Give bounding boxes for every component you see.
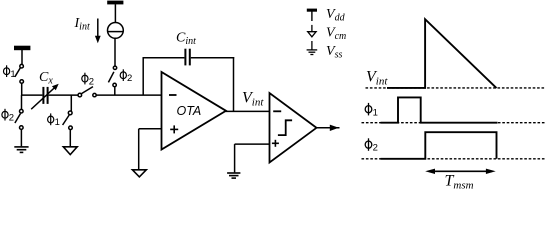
wire: comparator non-inverting input to ground xyxy=(235,144,270,172)
label phi2 (left ground switch) xyxy=(2,109,14,124)
wire: switch S4 to OTA inverting input xyxy=(96,94,161,96)
arrow Iint (current direction) xyxy=(95,19,101,44)
wire: node A down to switch S2 xyxy=(21,95,23,109)
svg-text:2: 2 xyxy=(9,113,14,124)
waveform phi1: dashed baseline xyxy=(362,122,546,124)
waveform Vint: dashed baseline xyxy=(366,87,546,89)
svg-text:Vss: Vss xyxy=(326,44,342,61)
svg-text:Vdd: Vdd xyxy=(326,7,346,24)
switch S3 phi1 (to Vcm ground) xyxy=(63,111,73,130)
waveform Vint: solid trace (ramp) xyxy=(387,19,497,88)
wire: comparator output with arrow xyxy=(317,125,340,131)
svg-text:Iint: Iint xyxy=(74,16,90,33)
svg-text:Cint: Cint xyxy=(176,31,196,48)
wire: feedback riser left (node B to Cint) xyxy=(142,58,144,95)
svg-text:1: 1 xyxy=(10,69,15,80)
legend Vcm symbol xyxy=(308,25,316,37)
wire: node C up to switch S5 xyxy=(114,87,116,96)
label phi2 (waveform) xyxy=(365,138,378,153)
svg-text:Vcm: Vcm xyxy=(326,26,346,43)
capacitor Cint xyxy=(185,49,189,66)
switch S5 phi2 (to current source) xyxy=(108,66,116,87)
label phi1 (waveform) xyxy=(365,103,378,118)
svg-text:2: 2 xyxy=(127,73,132,84)
ground Vcm (open triangle, OTA + input) xyxy=(132,170,146,177)
wire: Cx to node B xyxy=(49,94,78,96)
wire: feedback top left segment xyxy=(143,57,185,59)
ground Vss (comparator + input) xyxy=(227,173,240,178)
svg-text:2: 2 xyxy=(373,143,378,154)
comparator U2 xyxy=(270,93,317,163)
switch S2 phi2 (to ground, left) xyxy=(15,109,23,129)
svg-text:Cx: Cx xyxy=(39,70,53,87)
Vdd symbol (top-left rail) xyxy=(14,46,30,64)
ground Vcm (open triangle, under S3) xyxy=(63,147,77,155)
svg-text:2: 2 xyxy=(89,76,94,87)
wire: OTA output to comparator (node Vint) xyxy=(226,110,270,112)
waveform phi2: solid trace (pulse) xyxy=(381,132,497,159)
svg-text:Vint: Vint xyxy=(242,90,264,109)
current source Iint xyxy=(108,23,124,39)
label phi2 (current-source switch) xyxy=(120,69,132,84)
dimension arrow Tmsm xyxy=(425,169,496,174)
label phi1 (middle switch) xyxy=(48,113,60,127)
switch S4 phi2 (series, main line) xyxy=(78,87,96,97)
wire: node A to capacitor Cx xyxy=(21,94,42,96)
svg-text:1: 1 xyxy=(373,107,378,118)
capacitor Cx (variable) xyxy=(31,84,59,109)
legend Vss symbol xyxy=(307,41,318,55)
svg-text:Tmsm: Tmsm xyxy=(445,173,474,189)
waveform phi1: solid trace (pulse) xyxy=(381,97,498,122)
waveform phi2: dashed baseline xyxy=(362,158,546,160)
wire: switch S2 to Vss ground xyxy=(20,129,22,146)
switch S1 phi1 (top-left) xyxy=(15,64,24,83)
wire: node B down to switch S3 xyxy=(70,95,72,111)
svg-text:Vint: Vint xyxy=(366,69,388,88)
wire: feedback riser right (down to Vint node) xyxy=(233,57,235,111)
wire: switch S3 to Vcm ground xyxy=(69,130,71,147)
wire: current source to Vdd xyxy=(114,4,116,22)
wire: switch S5 up to current source xyxy=(114,38,116,66)
wire: feedback top right segment xyxy=(191,57,234,59)
hysteresis step symbol (inside comparator) xyxy=(278,120,292,135)
svg-text:1: 1 xyxy=(55,117,60,128)
wire: switch S1 down to node A xyxy=(21,83,23,95)
label phi1 (top-left switch) xyxy=(4,65,16,80)
legend Vdd symbol xyxy=(307,9,317,21)
ground Vss (bottom-left) xyxy=(14,147,28,153)
Vdd symbol (current source rail) xyxy=(107,1,123,5)
op-amp OTA xyxy=(162,72,227,150)
label phi2 (series switch) xyxy=(82,73,94,88)
wire: OTA non-inverting input to Vcm ground xyxy=(139,129,162,170)
svg-text:OTA: OTA xyxy=(177,104,202,118)
